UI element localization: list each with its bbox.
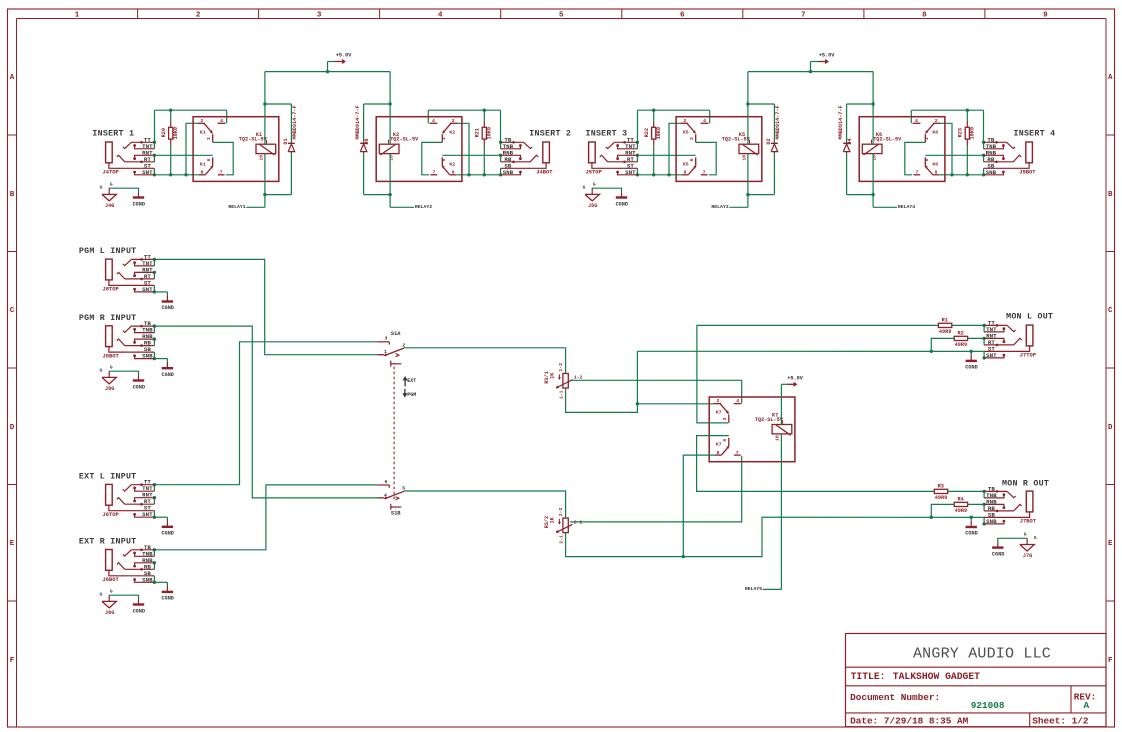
label EXT R INPUT (79, 538, 137, 547)
svg-text:B: B (10, 191, 15, 199)
svg-text:921008: 921008 (971, 700, 1005, 711)
svg-text:F: F (1108, 657, 1113, 665)
svg-text:ANGRY AUDIO LLC: ANGRY AUDIO LLC (913, 646, 1051, 663)
svg-text:SNB: SNB (986, 169, 997, 176)
wire relay coil to net label (388, 154, 391, 208)
svg-text:1K: 1K (550, 516, 556, 523)
wire sleeve net to relay pins 2 and 8 (154, 123, 198, 176)
svg-text:Sheet: 1/2: Sheet: 1/2 (1032, 716, 1089, 727)
EXT position arrow (403, 376, 417, 386)
svg-text:SNT: SNT (142, 169, 153, 176)
wire diode branch (364, 104, 391, 195)
revision A (1074, 691, 1097, 711)
svg-text:49R9: 49R9 (939, 329, 951, 335)
wire junction to K7 pin 2 (637, 403, 713, 405)
wire K7 coil supply (780, 384, 782, 425)
frame row letters A-F (8, 74, 1115, 665)
svg-text:CGND: CGND (161, 372, 173, 378)
svg-text:INSERT 4: INSERT 4 (1014, 130, 1056, 139)
svg-text:J4TOP: J4TOP (103, 170, 119, 176)
svg-text:4: 4 (438, 12, 443, 20)
svg-text:TQ2-SL-5V: TQ2-SL-5V (873, 137, 902, 143)
wire ring net to relay pin 6 (637, 154, 695, 156)
jack J6BOT (103, 544, 157, 584)
svg-text:PGM L INPUT: PGM L INPUT (79, 247, 137, 256)
switch S1B (378, 479, 406, 517)
relay K1 contacts (193, 117, 279, 182)
svg-text:CGND: CGND (992, 552, 1004, 558)
svg-text:R2: R2 (957, 330, 963, 336)
svg-text:J7G: J7G (1023, 553, 1032, 559)
wire S1A output to RS/1 (404, 348, 566, 374)
svg-text:K6: K6 (932, 129, 938, 135)
wire ring net to relay pin 6 (442, 154, 500, 156)
svg-text:Document Number:: Document Number: (850, 692, 940, 703)
relay K2 coil TQ2-SL-5V (379, 132, 419, 160)
wire relay coil supply (388, 72, 391, 145)
svg-text:G: G (593, 181, 596, 187)
ground symbols J5G and CGND (583, 181, 628, 209)
svg-text:SNB: SNB (986, 518, 997, 525)
svg-text:SNT: SNT (986, 352, 997, 359)
ground symbols J4G and CGND (100, 181, 145, 209)
relay K7 contacts (709, 397, 795, 462)
svg-text:J4BOT: J4BOT (536, 170, 553, 176)
wire EXT L tip to S1A pin 3 (154, 342, 377, 485)
svg-text:D6: D6 (364, 138, 370, 144)
svg-text:MMBD914-7-F: MMBD914-7-F (775, 105, 781, 139)
svg-text:INSERT 2: INSERT 2 (529, 130, 571, 139)
svg-text:PGM: PGM (407, 392, 416, 398)
svg-text:4: 4 (384, 492, 387, 498)
wire relay coil supply (263, 72, 266, 145)
svg-text:10: 10 (775, 435, 781, 441)
label INSERT 4 (1014, 130, 1056, 139)
label EXT L INPUT (79, 473, 137, 482)
wire EXT R tip to S1B pin 6 (154, 485, 377, 550)
trimmer pot RS/1 (544, 363, 583, 399)
svg-text:6: 6 (680, 12, 685, 20)
wire TT rail (428, 109, 500, 143)
svg-text:2-2: 2-2 (558, 507, 564, 516)
svg-text:2-1: 2-1 (558, 535, 564, 544)
svg-text:TQ2-SL-5V: TQ2-SL-5V (239, 137, 268, 143)
+5.0V supply symbol (781, 375, 803, 387)
svg-text:49R9: 49R9 (955, 342, 967, 348)
net label RELAY4 (873, 204, 915, 210)
svg-text:CGND: CGND (161, 305, 173, 311)
net label RELAY1 (228, 204, 264, 210)
jack J4TOP (103, 136, 157, 176)
wire K7 coil to RELAY5 (780, 434, 782, 589)
svg-text:SNT: SNT (142, 511, 153, 518)
svg-text:10: 10 (258, 155, 264, 161)
svg-text:MMBD914-7-F: MMBD914-7-F (292, 105, 298, 139)
svg-text:CGND: CGND (965, 365, 977, 371)
svg-text:A: A (1108, 74, 1113, 82)
svg-text:10K0: 10K0 (656, 127, 662, 139)
svg-text:G: G (1024, 532, 1027, 538)
relay K1 coil TQ2-SL-5V (239, 132, 276, 160)
svg-text:RELAY2: RELAY2 (415, 204, 432, 210)
svg-text:+5.0V: +5.0V (336, 53, 352, 59)
wire PGM R tip to S1B pin 4 (154, 326, 383, 498)
ground symbols J6G and CGND (100, 588, 145, 616)
svg-text:5: 5 (559, 12, 564, 20)
wire ring net to relay pin 6 (154, 154, 212, 156)
svg-text:A: A (10, 74, 15, 82)
svg-text:E: E (10, 540, 15, 548)
jack J7BOT (982, 485, 1036, 525)
svg-text:TALKSHOW GADGET: TALKSHOW GADGET (893, 671, 980, 682)
wire R2 leads (931, 338, 984, 351)
svg-text:1: 1 (75, 12, 80, 20)
wire sleeve to ground (154, 358, 167, 360)
svg-text:E: E (1108, 540, 1113, 548)
wire K7 pin 3 to MON L (697, 325, 939, 423)
wire K7 pin 6 to MON R (697, 436, 935, 492)
svg-text:SNT: SNT (142, 286, 153, 293)
wire +5V distribution rail (265, 71, 390, 73)
svg-text:K2: K2 (449, 129, 455, 135)
sheet number (1032, 716, 1089, 727)
wire relay coil supply (871, 72, 874, 145)
resistor R22 (644, 110, 662, 175)
svg-text:MMBD914-7-F: MMBD914-7-F (838, 105, 844, 139)
wire junction to MON L ground bus (637, 350, 984, 404)
svg-text:1-2: 1-2 (558, 363, 564, 372)
svg-text:3: 3 (689, 137, 695, 140)
svg-text:A: A (1084, 700, 1090, 711)
svg-text:RELAY5: RELAY5 (745, 586, 762, 592)
svg-text:TQ2-SL-5V: TQ2-SL-5V (755, 417, 784, 423)
jack J6TOP (103, 479, 157, 519)
wire diode branch (847, 104, 874, 195)
ground CGND (161, 517, 173, 536)
svg-text:6: 6 (689, 158, 695, 161)
svg-text:R21: R21 (475, 128, 481, 137)
svg-text:G: G (110, 588, 113, 594)
svg-text:RELAY3: RELAY3 (711, 204, 728, 210)
svg-text:10K0: 10K0 (173, 127, 179, 139)
svg-text:R1: R1 (942, 317, 948, 323)
svg-text:R4: R4 (957, 496, 963, 502)
svg-text:CGND: CGND (133, 608, 145, 614)
svg-text:J5TOP: J5TOP (586, 170, 602, 176)
switch S1A (378, 331, 406, 367)
label PGM R INPUT (79, 314, 137, 323)
svg-text:CGND: CGND (133, 384, 145, 390)
ground CGND (161, 292, 173, 311)
svg-text:3: 3 (317, 12, 322, 20)
ground CGND (161, 359, 173, 378)
svg-text:B: B (1108, 191, 1113, 199)
svg-text:6: 6 (722, 439, 728, 442)
svg-text:G: G (583, 185, 586, 191)
date (850, 716, 969, 727)
svg-text:G: G (100, 592, 103, 598)
wire TT rail (155, 109, 227, 143)
wire TT rail (638, 109, 710, 143)
svg-text:K7: K7 (716, 410, 722, 416)
wire sleeve to ground (154, 581, 167, 583)
label PGM L INPUT (79, 247, 137, 256)
svg-text:C: C (1108, 307, 1113, 315)
svg-text:49R9: 49R9 (935, 495, 947, 501)
svg-text:EXT R INPUT: EXT R INPUT (79, 538, 137, 547)
svg-text:TQ2-SL-5V: TQ2-SL-5V (390, 137, 419, 143)
wire relay coil supply (746, 72, 749, 145)
wire R1 to MON L tip (952, 324, 984, 326)
resistor R23 (958, 110, 976, 175)
svg-text:6: 6 (206, 158, 212, 161)
svg-text:D2: D2 (766, 138, 772, 144)
wire ring net to relay pin 6 (925, 154, 983, 156)
svg-text:D: D (1108, 424, 1113, 432)
svg-text:G: G (100, 185, 103, 191)
jack J5BOT (982, 136, 1036, 176)
label INSERT 3 (586, 130, 628, 139)
wire K7 pin 8 to ground bus (683, 455, 715, 556)
svg-text:1K: 1K (550, 372, 556, 379)
company name ANGRY AUDIO LLC (913, 646, 1051, 663)
svg-text:+5.0V: +5.0V (819, 53, 835, 59)
PGM position arrow (402, 389, 416, 398)
svg-text:CGND: CGND (616, 201, 628, 207)
svg-text:J7BOT: J7BOT (1020, 519, 1037, 525)
relay K6 coil TQ2-SL-5V (862, 132, 902, 160)
svg-text:CGND: CGND (161, 596, 173, 602)
svg-text:K1: K1 (200, 129, 206, 135)
svg-text:S1B: S1B (391, 510, 401, 516)
resistor R2 (954, 330, 967, 348)
svg-text:TITLE:: TITLE: (851, 671, 886, 682)
net label RELAY2 (390, 204, 432, 210)
svg-text:R22: R22 (644, 128, 650, 137)
wire RS/1 low side junction (566, 388, 640, 412)
svg-text:R20: R20 (161, 128, 167, 137)
ground symbols J7G and CGND (992, 532, 1037, 560)
net label RELAY3 (711, 204, 747, 210)
svg-text:Date: 7/29/18 8:35 AM: Date: 7/29/18 8:35 AM (850, 716, 969, 727)
wire relay coil to net label (263, 154, 266, 208)
svg-text:SNB: SNB (503, 169, 514, 176)
label MON L OUT (1006, 312, 1053, 321)
ground CGND (965, 517, 977, 537)
jack J8TOP (103, 253, 157, 293)
svg-text:CGND: CGND (965, 531, 977, 537)
relay K5 contacts (676, 117, 762, 182)
svg-text:INSERT 1: INSERT 1 (92, 130, 134, 139)
svg-text:CGND: CGND (133, 201, 145, 207)
svg-text:R3: R3 (938, 483, 944, 489)
resistor R1 (938, 317, 951, 335)
resistor R4 (954, 496, 967, 514)
wire PGM L tip to S1A pin 1 (154, 259, 383, 354)
wire diode branch (265, 104, 292, 195)
svg-text:J8TOP: J8TOP (103, 287, 119, 293)
svg-text:K1: K1 (200, 161, 206, 167)
svg-text:J6BOT: J6BOT (103, 577, 120, 583)
svg-text:8: 8 (922, 12, 927, 20)
svg-text:R23: R23 (958, 128, 964, 137)
svg-text:10K0: 10K0 (970, 127, 976, 139)
title block outline (846, 634, 1107, 727)
ground CGND (965, 351, 977, 370)
document number 921008 (850, 692, 1005, 711)
label INSERT 1 (92, 130, 134, 139)
svg-text:2: 2 (196, 12, 201, 20)
svg-text:10K0: 10K0 (487, 127, 493, 139)
svg-text:K6: K6 (932, 161, 938, 167)
diode D4 (838, 105, 853, 151)
wire sleeve net to relay pins 2 and 8 (939, 123, 983, 176)
svg-text:D: D (10, 424, 15, 432)
trimmer pot RS/2 (544, 507, 583, 543)
svg-text:F: F (10, 657, 15, 665)
label INSERT 2 (529, 130, 571, 139)
svg-text:J5BOT: J5BOT (1019, 170, 1036, 176)
svg-text:K5: K5 (683, 129, 689, 135)
svg-text:G: G (1034, 535, 1037, 541)
wire S1B output to RS/2 (404, 491, 566, 518)
svg-text:6: 6 (385, 479, 388, 485)
svg-text:1: 1 (384, 349, 387, 355)
svg-text:J8G: J8G (105, 386, 114, 392)
svg-text:K5: K5 (683, 161, 689, 167)
title TALKSHOW GADGET (851, 671, 981, 682)
wire +5V distribution rail (748, 71, 873, 73)
resistor R3 (934, 483, 947, 501)
svg-text:1-1: 1-1 (558, 390, 564, 399)
wire relay coil to net label (746, 154, 749, 208)
wire sleeve net to relay pins 2 and 8 (456, 123, 500, 176)
wire relay coil to net label (871, 154, 874, 208)
ground symbols J8G and CGND (100, 364, 145, 392)
svg-text:J6TOP: J6TOP (103, 512, 119, 518)
diode D2 (766, 105, 781, 151)
relay K5 coil TQ2-SL-5V (722, 132, 759, 160)
svg-text:K2: K2 (449, 161, 455, 167)
diode D1 (283, 105, 298, 151)
svg-text:9: 9 (1043, 12, 1048, 20)
svg-text:SNB: SNB (142, 353, 153, 360)
wire sleeve to ground (154, 516, 167, 518)
+5.0V supply symbol (809, 53, 835, 74)
svg-text:J8BOT: J8BOT (103, 353, 120, 359)
svg-text:D4: D4 (847, 138, 853, 144)
wire TT rail (911, 109, 983, 143)
svg-text:EXT L INPUT: EXT L INPUT (79, 473, 137, 482)
svg-text:SNT: SNT (625, 169, 636, 176)
resistor R20 (161, 110, 179, 175)
+5.0V supply symbol (326, 53, 352, 74)
svg-text:MMBD914-7-F: MMBD914-7-F (355, 105, 361, 139)
svg-text:J6G: J6G (105, 610, 114, 616)
jack J7TOP (982, 319, 1036, 359)
svg-text:PGM R INPUT: PGM R INPUT (79, 314, 137, 323)
wire RS/1 wiper to K7 pin 4 (570, 380, 742, 403)
jack J5TOP (586, 136, 640, 176)
relay K6 contacts (859, 117, 945, 182)
svg-text:J5G: J5G (588, 203, 597, 209)
relay K7 coil TQ2-SL-5V (755, 413, 792, 441)
jack J8BOT (103, 320, 157, 360)
svg-text:INSERT 3: INSERT 3 (586, 130, 628, 139)
svg-text:MON L OUT: MON L OUT (1006, 312, 1053, 321)
wire diode branch (748, 104, 775, 195)
svg-text:C: C (10, 307, 15, 315)
wire sleeve to ground (154, 291, 167, 293)
wire R3 to MON R tip (948, 490, 984, 492)
svg-text:S1A: S1A (391, 331, 401, 337)
svg-text:+5.0V: +5.0V (787, 375, 803, 381)
diode D6 (355, 105, 370, 151)
resistor R21 (475, 110, 493, 175)
svg-text:J7TOP: J7TOP (1020, 353, 1036, 359)
frame column numbers 1-9 (75, 9, 1048, 20)
svg-text:49R9: 49R9 (955, 508, 967, 514)
svg-text:3: 3 (385, 336, 388, 342)
svg-text:D1: D1 (283, 138, 289, 144)
svg-text:10: 10 (741, 155, 747, 161)
svg-text:RELAY4: RELAY4 (898, 204, 915, 210)
svg-text:TQ2-SL-5V: TQ2-SL-5V (722, 137, 751, 143)
wire R4 leads (931, 504, 984, 517)
label MON R OUT (1002, 479, 1049, 488)
net label RELAY5 (745, 586, 781, 592)
jack J4BOT (499, 136, 553, 176)
svg-text:J4G: J4G (105, 203, 114, 209)
ground CGND (161, 582, 173, 601)
switch gang dashed link (393, 367, 395, 501)
svg-text:CGND: CGND (161, 531, 173, 537)
svg-text:SNB: SNB (142, 576, 153, 583)
svg-text:3: 3 (206, 137, 212, 140)
wire RS/2 wiper to K7 pin 7 (570, 456, 742, 522)
svg-text:G: G (110, 181, 113, 187)
svg-text:7: 7 (801, 12, 806, 20)
svg-text:K7: K7 (716, 442, 722, 448)
svg-text:G: G (100, 368, 103, 374)
svg-text:RELAY1: RELAY1 (228, 204, 245, 210)
wire sleeve net to relay pins 2 and 8 (637, 123, 681, 176)
svg-text:MON R OUT: MON R OUT (1002, 479, 1049, 488)
svg-text:G: G (110, 364, 113, 370)
relay K2 contacts (376, 117, 462, 182)
wire RS/2 low side to MON R ground bus (566, 516, 985, 559)
svg-text:3: 3 (722, 417, 728, 420)
svg-text:EXT: EXT (407, 378, 416, 384)
